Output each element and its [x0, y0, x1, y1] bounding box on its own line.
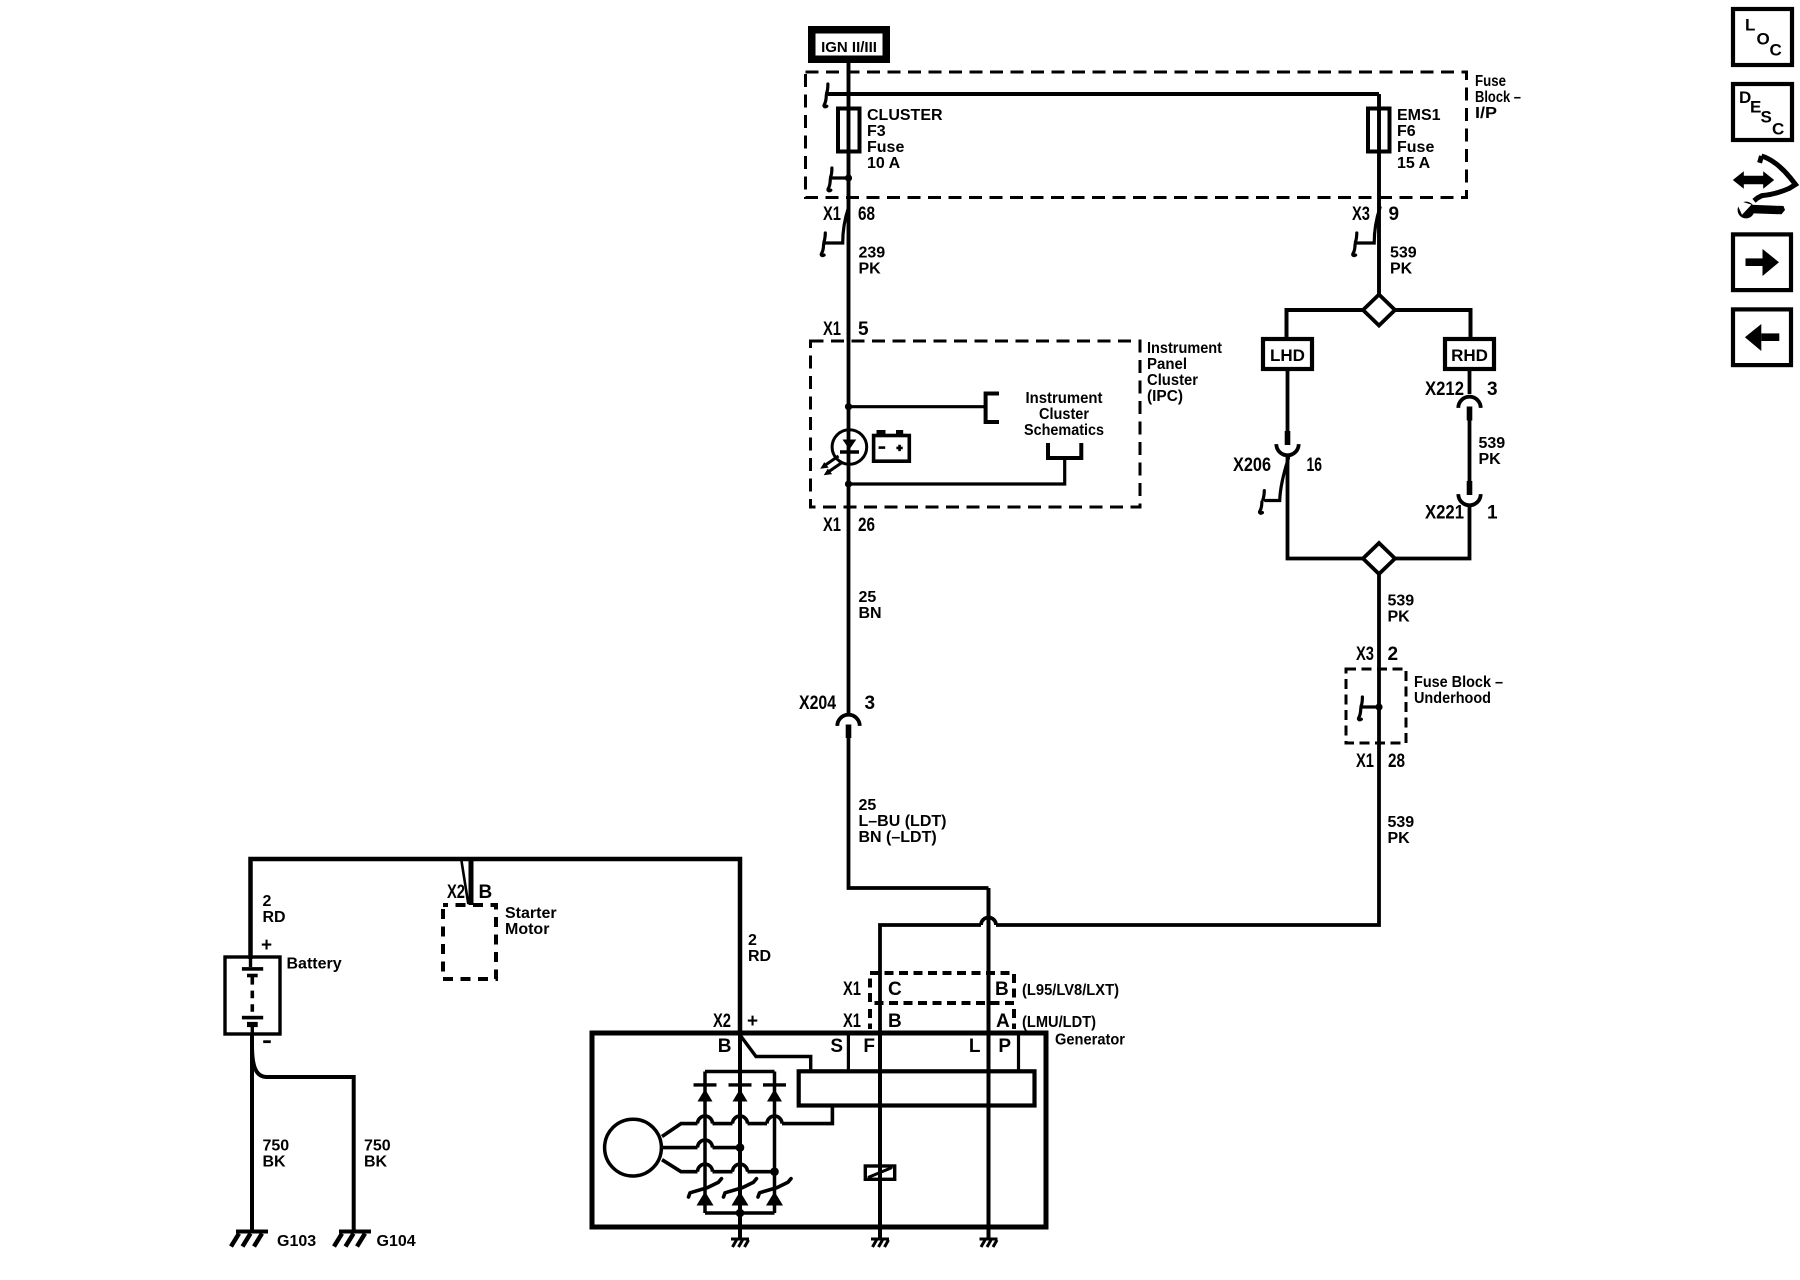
svg-text:10 A: 10 A [867, 155, 901, 172]
svg-text:S: S [1761, 108, 1772, 127]
dashed connector row (LMU/LDT) [870, 1009, 1014, 1029]
svg-text:P: P [998, 1036, 1011, 1057]
ground at generator F lead [871, 1239, 889, 1247]
connector X1 pin 68 labels [823, 204, 875, 225]
svg-text:5: 5 [858, 319, 869, 340]
svg-text:26: 26 [858, 515, 875, 536]
ground G104 [334, 1232, 371, 1247]
svg-text:Fuse: Fuse [867, 139, 904, 156]
svg-text:L: L [1745, 16, 1755, 35]
svg-text:(LMU/LDT): (LMU/LDT) [1022, 1014, 1096, 1031]
svg-text:B: B [888, 1011, 902, 1032]
wire: IPC internal bottom link [849, 458, 1065, 484]
svg-text:Generator: Generator [1055, 1032, 1125, 1049]
connector row 1 labels [843, 979, 1119, 1000]
label - at battery [263, 1040, 271, 1043]
svg-text:Cluster: Cluster [1147, 372, 1198, 389]
wire: IPC internal top link [849, 405, 986, 408]
connector X221 pin and socket [1458, 481, 1480, 505]
wire: F lead through regulator to ground [878, 1033, 882, 1238]
wire: 750 BK battery negative to G103 [250, 1034, 254, 1230]
label CLUSTER F3 Fuse 10 A [867, 107, 943, 172]
svg-text:Underhood: Underhood [1414, 690, 1491, 707]
label 750 BK right [364, 1138, 391, 1171]
connector X1 pin 26 labels [823, 515, 875, 536]
phase C hops [698, 1164, 748, 1171]
ground at generator B lead [731, 1239, 749, 1247]
svg-text:IGN II/III: IGN II/III [821, 39, 877, 56]
connector X206 pin 16 (pin and socket) [1276, 431, 1298, 455]
stator phase line A to regulator [662, 1106, 832, 1137]
label Instrument Panel Cluster (IPC) [1147, 340, 1223, 405]
svg-text:239: 239 [859, 245, 886, 262]
svg-text:F3: F3 [867, 123, 886, 140]
svg-text:(L95/LV8/LXT): (L95/LV8/LXT) [1022, 982, 1119, 999]
wire: internal link from B to regulator [740, 1035, 811, 1071]
rectifier diode top left [694, 1085, 717, 1102]
wire: main vertical through IPC down to X204 [847, 341, 851, 713]
svg-text:A: A [996, 1011, 1010, 1032]
svg-text:539: 539 [1390, 245, 1417, 262]
svg-text:B: B [995, 979, 1009, 1000]
svg-text:X1: X1 [843, 1011, 861, 1032]
svg-text:X3: X3 [1352, 204, 1370, 225]
svg-text:3: 3 [865, 693, 876, 714]
label 539 PK below merge [1388, 593, 1415, 626]
wire: 750 BK branch to G104 [252, 1045, 354, 1230]
label Starter Motor [505, 905, 557, 938]
connector clip at fuse block feed [824, 84, 845, 107]
fuse F6 EMS1 15A [1368, 109, 1390, 152]
connector X2 pin + labels (generator B) [713, 1011, 758, 1032]
wire: top bus from fuse block feed to EMS1 fuse [828, 92, 1379, 96]
label 25 L-BU (LDT) BN (-LDT) [859, 797, 947, 846]
svg-text:X212: X212 [1425, 379, 1464, 400]
connector clip at X206 16 [1260, 458, 1289, 513]
connector X212 socket and pin [1458, 397, 1480, 421]
generator box [592, 1033, 1046, 1227]
svg-text:Starter: Starter [505, 905, 557, 922]
fuse F3 CLUSTER 10A [838, 109, 860, 152]
generator terminal dividers [848, 1035, 1018, 1071]
node: junction at IPC top link [845, 403, 852, 410]
svg-text:9: 9 [1389, 204, 1400, 225]
stator winding circle [605, 1119, 662, 1176]
connector X212 pin 3 labels [1425, 379, 1498, 400]
node: phase B junction [736, 1143, 745, 1152]
svg-text:B: B [479, 882, 493, 903]
svg-text:BK: BK [263, 1154, 287, 1171]
svg-text:28: 28 [1388, 751, 1405, 772]
svg-text:BK: BK [364, 1154, 388, 1171]
svg-text:CLUSTER: CLUSTER [867, 107, 943, 124]
dashed box Fuse Block - Underhood [1346, 669, 1406, 743]
connector X1 pin 5 labels [823, 319, 869, 340]
svg-text:X221: X221 [1425, 503, 1464, 524]
svg-text:Motor: Motor [505, 921, 549, 938]
zener diode bottom right [758, 1179, 791, 1206]
connector clip below fuse F3 [828, 168, 852, 191]
ground at generator L lead [980, 1239, 998, 1247]
connector X204 socket and pin [837, 715, 859, 738]
wire: 25 L-BU from X204 down and over to generator L [849, 738, 989, 888]
node: phase C junction [770, 1167, 779, 1176]
svg-text:2: 2 [1388, 644, 1399, 665]
svg-text:X1: X1 [823, 319, 841, 340]
wire: 539 PK from merge down to fuse block underhood [880, 574, 1379, 1033]
svg-text:Fuse: Fuse [1475, 73, 1506, 90]
ground G103 [231, 1232, 268, 1247]
svg-text:Panel: Panel [1147, 356, 1187, 373]
svg-text:RD: RD [748, 948, 771, 965]
svg-text:PK: PK [1479, 451, 1502, 468]
wire: 539 PK from fuse F6 down to diamond junction [1377, 94, 1381, 295]
zener diode bottom left [689, 1179, 722, 1206]
power feed tag IGN II/III [808, 26, 890, 63]
svg-text:Fuse Block –: Fuse Block – [1414, 674, 1503, 691]
svg-text:Fuse: Fuse [1397, 139, 1434, 156]
label 539 PK right branch [1479, 435, 1506, 468]
resistor (field) on F lead [865, 1166, 894, 1179]
svg-text:F6: F6 [1397, 123, 1416, 140]
nav icon DESC [1733, 84, 1792, 140]
dashed box Starter Motor [443, 905, 496, 979]
svg-text:O: O [1757, 30, 1770, 49]
svg-text:X1: X1 [1356, 751, 1374, 772]
stator phase line C to right leg [662, 1160, 775, 1172]
svg-text:LHD: LHD [1270, 346, 1305, 365]
svg-text:C: C [1770, 41, 1782, 60]
wire: below RHD to connector X212 [1468, 369, 1472, 394]
svg-text:X1: X1 [823, 204, 841, 225]
label Fuse Block - Underhood [1414, 674, 1503, 707]
svg-text:Cluster: Cluster [1039, 406, 1089, 423]
svg-text:X1: X1 [843, 979, 861, 1000]
connector clip at X1 68 [821, 208, 848, 256]
svg-text:Block –: Block – [1475, 89, 1521, 106]
indicator LED charge lamp [820, 430, 867, 476]
svg-text:RD: RD [263, 909, 286, 926]
battery [225, 957, 280, 1034]
svg-text:(IPC): (IPC) [1147, 388, 1183, 405]
svg-text:2: 2 [263, 893, 272, 910]
wire: branch to RHD [1394, 310, 1471, 339]
label Instrument Cluster Schematics [1024, 390, 1104, 439]
terminal bracket from cluster schematics (bottom) [1048, 443, 1081, 458]
svg-text:PK: PK [1388, 609, 1411, 626]
label 2 RD right [748, 932, 771, 965]
svg-text:I/P: I/P [1475, 105, 1497, 122]
dashed box Fuse Block - I/P [806, 72, 1467, 198]
stator phase line B to middle leg [661, 1146, 740, 1150]
wire: RHD branch down to bottom diamond [1394, 506, 1470, 559]
label EMS1 F6 Fuse 15 A [1397, 107, 1441, 172]
svg-text:PK: PK [1390, 261, 1413, 278]
rectifier diode top right [763, 1085, 786, 1102]
svg-text:25: 25 [859, 797, 877, 814]
svg-text:X2: X2 [713, 1011, 731, 1032]
svg-text:539: 539 [1388, 814, 1415, 831]
label 539 PK lower [1388, 814, 1415, 847]
svg-text:2: 2 [748, 932, 757, 949]
label Fuse Block - I/P [1475, 73, 1521, 122]
label 750 BK left [263, 1138, 290, 1171]
svg-text:L: L [969, 1036, 981, 1057]
connector row 2 labels [843, 1011, 1096, 1032]
battery icon inside IPC [874, 430, 910, 461]
svg-text:B: B [718, 1036, 732, 1057]
svg-text:Schematics: Schematics [1024, 422, 1104, 439]
option box RHD [1445, 339, 1494, 369]
option box LHD [1263, 339, 1312, 369]
connector clip inside fuse block underhood [1358, 697, 1382, 720]
dashed box Instrument Panel Cluster [811, 341, 1141, 507]
label 239 PK [859, 245, 886, 278]
svg-text:539: 539 [1388, 593, 1415, 610]
nav icon arrow next [1733, 234, 1791, 290]
connector X221 pin 1 labels [1425, 503, 1498, 524]
connector clip at X3 9 [1353, 208, 1380, 256]
svg-text:68: 68 [858, 204, 875, 225]
nav icon LOC [1733, 9, 1792, 65]
svg-text:G104: G104 [377, 1233, 416, 1250]
wire: branch to LHD [1287, 310, 1365, 339]
node: bridge bottom junction [736, 1209, 745, 1218]
generator terminal letters B S F L P [718, 1036, 1012, 1057]
svg-text:25: 25 [859, 589, 877, 606]
zener diode bottom middle [724, 1179, 757, 1206]
phase B hop [698, 1140, 713, 1148]
wire: IGN feed down through fuse F3 [847, 63, 851, 341]
svg-text:539: 539 [1479, 435, 1506, 452]
svg-text:L–BU (LDT): L–BU (LDT) [859, 813, 947, 830]
svg-text:X206: X206 [1233, 455, 1271, 476]
svg-text:Instrument: Instrument [1147, 340, 1223, 357]
wire: LHD branch down to bottom diamond [1288, 457, 1365, 559]
rectifier bridge rails [705, 1072, 775, 1214]
rectifier diode top middle [729, 1085, 752, 1102]
svg-text:1: 1 [1487, 503, 1498, 524]
phase A hops [698, 1116, 783, 1123]
svg-text:X2: X2 [447, 882, 465, 903]
svg-text:F: F [863, 1036, 875, 1057]
svg-text:BN (–LDT): BN (–LDT) [859, 829, 937, 846]
terminal bracket to cluster schematics (top) [986, 394, 999, 423]
connector X3 pin 9 labels [1352, 204, 1399, 225]
wire hop over L wire [981, 918, 996, 925]
svg-text:Battery: Battery [287, 956, 342, 973]
connector X3 pin 2 labels [1356, 644, 1398, 665]
connector X1 pin 28 labels [1356, 751, 1405, 772]
svg-text:PK: PK [1388, 830, 1411, 847]
connector X206 pin 16 labels [1233, 455, 1322, 476]
wire: 539 PK between X212 and X221 [1468, 421, 1472, 482]
nav icon arrow back [1733, 309, 1791, 365]
label 25 BN [859, 589, 882, 622]
svg-text:C: C [1772, 120, 1784, 139]
svg-text:+: + [261, 935, 272, 956]
voltage regulator box [799, 1071, 1035, 1105]
svg-text:PK: PK [859, 261, 882, 278]
svg-text:X3: X3 [1356, 644, 1374, 665]
svg-text:S: S [830, 1036, 843, 1057]
dashed connector row (L95/LV8/LXT) [870, 973, 1014, 1003]
connector X204 pin 3 labels [799, 693, 875, 714]
nav icon swap arrows with wrench [1733, 156, 1796, 218]
connector X2 pin B labels (starter) [447, 882, 492, 903]
svg-text:3: 3 [1487, 379, 1498, 400]
svg-text:750: 750 [364, 1138, 391, 1155]
wire: 2 RD battery positive bus [251, 859, 741, 1033]
wire: tap to starter motor B [469, 859, 474, 905]
junction diamond top (LHD/RHD split) [1363, 295, 1395, 326]
svg-text:Instrument: Instrument [1026, 390, 1104, 407]
svg-text:G103: G103 [277, 1233, 316, 1250]
wire: B lead through rectifier to ground [738, 1033, 742, 1238]
svg-text:16: 16 [1307, 455, 1323, 476]
svg-text:BN: BN [859, 605, 882, 622]
svg-text:X1: X1 [823, 515, 841, 536]
svg-text:RHD: RHD [1451, 346, 1488, 365]
label 2 RD left [263, 893, 286, 926]
wire: below LHD to connector X206 [1286, 369, 1290, 431]
svg-text:EMS1: EMS1 [1397, 107, 1441, 124]
svg-text:X204: X204 [799, 693, 836, 714]
label 539 PK upper right [1390, 245, 1417, 278]
svg-text:C: C [888, 979, 902, 1000]
svg-text:+: + [747, 1011, 758, 1032]
node: junction at IPC bottom link [845, 480, 852, 487]
junction diamond bottom (LHD/RHD merge) [1363, 543, 1395, 574]
svg-text:750: 750 [263, 1138, 290, 1155]
svg-text:15 A: 15 A [1397, 155, 1431, 172]
wire: L lead through regulator to ground [987, 888, 991, 1238]
